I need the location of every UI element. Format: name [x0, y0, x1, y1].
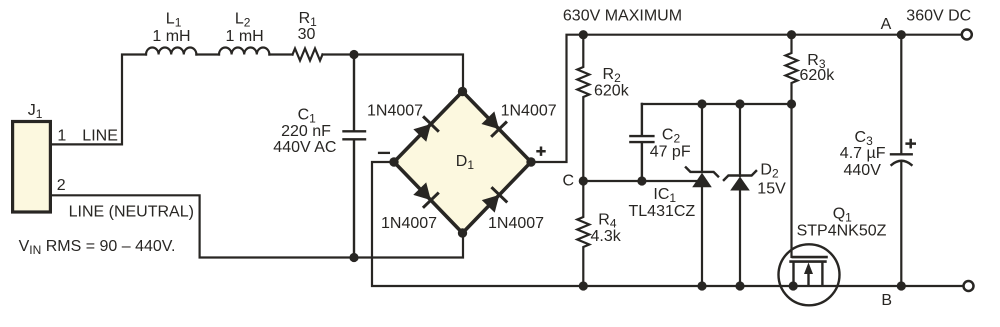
- wire R3 to Q1 gate: [790, 104, 792, 257]
- svg-text:360V DC: 360V DC: [906, 7, 971, 24]
- diode top-left (anode at minus, cathode at top): [412, 116, 439, 143]
- wire node C to IC1: [583, 180, 698, 182]
- svg-text:1 mH: 1 mH: [225, 28, 263, 45]
- node C1 bottom junction: [349, 253, 358, 262]
- node IC1 top junction: [697, 99, 706, 108]
- wire L1 to L2: [196, 53, 219, 55]
- node C2 bottom junction: [637, 176, 646, 185]
- node C junction: [579, 176, 588, 185]
- svg-text:440V AC: 440V AC: [273, 139, 336, 156]
- node Q1 source junction: [789, 281, 798, 290]
- resistor R3 branch: [786, 35, 798, 104]
- plus sign at bridge: [536, 147, 545, 156]
- wire J1 pin1 to top rail: [51, 55, 147, 145]
- capacitor C1: [344, 55, 366, 258]
- svg-text:220 nF: 220 nF: [281, 123, 331, 140]
- resistor R2 branch: [577, 35, 589, 181]
- capacitor C3 plates: [891, 154, 912, 165]
- node R3 bottom junction: [787, 99, 796, 108]
- svg-text:VIN RMS = 90 – 440V.: VIN RMS = 90 – 440V.: [19, 238, 176, 257]
- node D2 bottom junction: [735, 281, 744, 290]
- node R4 bottom junction: [579, 281, 588, 290]
- svg-text:630V MAXIMUM: 630V MAXIMUM: [563, 8, 682, 25]
- inductor L1: [146, 47, 196, 54]
- bridge top vertex: [458, 87, 467, 96]
- diode bottom-left (anode at minus, cathode at bottom): [412, 181, 439, 208]
- node R3 top junction: [787, 30, 796, 39]
- node IC1 bottom junction: [697, 281, 706, 290]
- svg-text:15V: 15V: [757, 181, 786, 198]
- svg-text:30: 30: [298, 26, 316, 43]
- IC1 TL431 triangle: [692, 173, 712, 188]
- svg-text:LINE: LINE: [82, 128, 118, 145]
- zener D2 leads: [739, 104, 741, 286]
- svg-text:47 pF: 47 pF: [650, 143, 691, 160]
- svg-text:C: C: [563, 173, 575, 190]
- bridge rectifier D1 diamond: [394, 92, 531, 234]
- diode top-right (anode at top, cathode at plus): [480, 110, 507, 137]
- zener D2 triangle: [730, 177, 750, 191]
- wire C2 top to R3 branch: [642, 103, 792, 105]
- svg-text:2: 2: [57, 177, 66, 194]
- svg-text:1N4007: 1N4007: [501, 103, 557, 120]
- capacitor C2: [630, 104, 653, 181]
- terminal A: [962, 30, 972, 40]
- IC1 TL431 cathode bar: [686, 167, 718, 176]
- svg-text:620k: 620k: [800, 67, 836, 84]
- svg-text:440V: 440V: [844, 162, 882, 179]
- svg-text:STP4NK50Z: STP4NK50Z: [797, 223, 887, 240]
- svg-text:1 mH: 1 mH: [152, 28, 190, 45]
- wire J1 pin2 neutral to bridge bottom: [51, 195, 464, 257]
- wire R1 to bridge top: [323, 55, 464, 92]
- bridge right vertex: [526, 157, 535, 166]
- svg-text:A: A: [881, 16, 892, 33]
- svg-text:TL431CZ: TL431CZ: [629, 203, 696, 220]
- svg-text:B: B: [881, 292, 892, 309]
- node D2 top junction: [735, 99, 744, 108]
- svg-text:1N4007: 1N4007: [381, 215, 437, 232]
- resistor R4 branch: [577, 181, 589, 286]
- wire bridge minus to bottom rail B: [372, 162, 963, 286]
- diode bottom-right (anode at bottom, cathode at plus): [480, 187, 507, 214]
- plus sign at C3: [905, 139, 916, 149]
- svg-text:4.3k: 4.3k: [591, 228, 622, 245]
- node A junction: [897, 30, 906, 39]
- svg-text:1N4007: 1N4007: [488, 215, 544, 232]
- svg-text:1: 1: [57, 128, 66, 145]
- svg-text:4.7 µF: 4.7 µF: [840, 145, 886, 162]
- inductor L2: [219, 47, 269, 54]
- node R1/C1 junction: [349, 50, 358, 59]
- svg-text:LINE (NEUTRAL): LINE (NEUTRAL): [69, 204, 194, 221]
- node R2 top junction: [579, 30, 588, 39]
- capacitor C3 leads: [900, 35, 902, 286]
- svg-text:1N4007: 1N4007: [367, 103, 423, 120]
- bridge bottom vertex: [458, 228, 467, 237]
- zener D2 cathode bar: [724, 171, 756, 180]
- connector J1 body: [13, 122, 51, 213]
- transistor Q1 MOSFET: [779, 244, 840, 305]
- resistor R1: [293, 49, 323, 61]
- wire bridge plus to top rail A: [531, 35, 961, 162]
- wire L2 to R1: [269, 53, 292, 55]
- minus sign at bridge: [378, 152, 390, 154]
- bridge left vertex: [389, 157, 398, 166]
- node B junction: [897, 281, 906, 290]
- terminal B: [964, 281, 974, 291]
- svg-text:620k: 620k: [594, 83, 630, 100]
- IC1 TL431 leads: [701, 104, 703, 286]
